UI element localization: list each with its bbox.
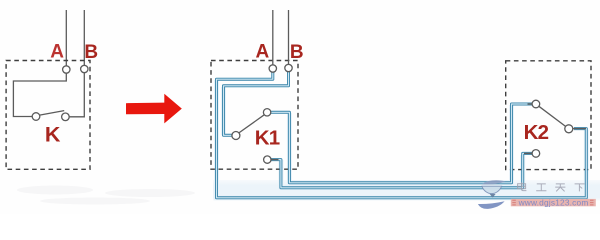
switch K1 upper contact [263, 109, 270, 116]
wire: traveller 1, K1 upper contact to K2 upper contact (blue) [271, 104, 532, 183]
svg-text:K2: K2 [524, 121, 549, 144]
switch K1 lever [239, 115, 265, 133]
switch K2 common (pivot) contact [565, 125, 573, 133]
wire: traveller 2, K1 lower contact to K2 lower contact (blue) [271, 153, 532, 187]
watermark url strip end marks [512, 200, 593, 205]
red transformation arrow [126, 94, 182, 124]
wire: K2 lower contact gray stub [524, 152, 532, 154]
svg-text:A: A [50, 41, 64, 62]
svg-text:www.dgjs123.com: www.dgjs123.com [518, 197, 589, 207]
wire: feed B vertical (middle diagram) [288, 10, 290, 64]
dashed enclosure box (middle) [211, 61, 298, 170]
svg-text:K1: K1 [255, 126, 280, 149]
watermark logo lens [482, 186, 502, 193]
wire: feed A vertical (middle diagram) [272, 10, 274, 65]
svg-text:B: B [84, 42, 98, 63]
switch K2 lower contact [532, 150, 540, 158]
switch K2 lever [539, 106, 566, 126]
switch K right contact [62, 113, 70, 121]
wire: feed A vertical (left diagram) [65, 10, 67, 66]
svg-text:A: A [256, 41, 270, 62]
watermark logo bottom crescent [478, 201, 505, 209]
wire: A to K2 common (blue, outer) [217, 72, 587, 198]
switch K left contact [32, 113, 40, 121]
wire: B terminal down to right switch contact [69, 73, 84, 117]
switch K1 common (pivot) contact [232, 132, 240, 140]
faint erased-watermark smudges bottom-left [17, 186, 195, 205]
faint halo around blue wire runs [217, 80, 587, 198]
dashed enclosure box (right) [506, 61, 591, 170]
switch K lever [40, 111, 65, 116]
watermark logo triangle [490, 194, 496, 198]
watermark logo swirl (top crescent) [482, 180, 506, 184]
terminal B (middle) [285, 64, 292, 71]
wire: B to K1 common (blue, inner) [224, 72, 289, 136]
watermark text 电 [518, 182, 527, 190]
terminal A (left) [63, 66, 70, 73]
wire: K2 upper contact gray stub [528, 103, 533, 105]
watermark url strip [511, 199, 596, 206]
wire: A terminal to left switch contact [13, 73, 66, 116]
watermark text 下 [575, 184, 585, 192]
terminal B (left) [81, 65, 88, 72]
terminal A (middle) [269, 65, 276, 72]
dashed enclosure box (left) [6, 61, 90, 170]
wire: feed B vertical (left diagram) [83, 10, 85, 65]
watermark text 天 [555, 184, 565, 192]
wire: K2 common gray stub [573, 128, 586, 130]
switch K2 upper contact [532, 100, 540, 108]
wire: K1 lower contact gray stub [271, 159, 279, 161]
watermark text 工 [536, 184, 546, 191]
switch K1 lower contact [264, 156, 271, 163]
svg-text:K: K [45, 122, 61, 146]
svg-text:B: B [290, 42, 304, 63]
